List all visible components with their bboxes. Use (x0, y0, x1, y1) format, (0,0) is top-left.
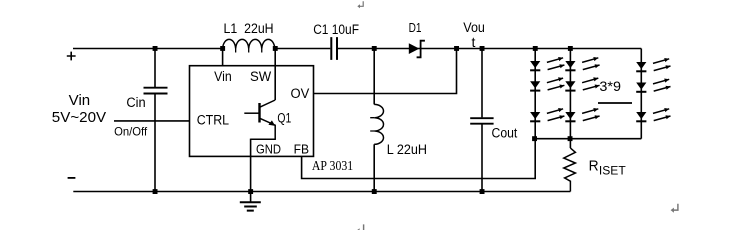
wire Cin top lead (154, 49, 156, 88)
LED D10 light arrows (653, 108, 671, 121)
ground symbol (240, 202, 261, 210)
wire top rail right segment (C1 right plate to LED col3 corner) (338, 48, 641, 50)
svg-text:R: R (589, 158, 599, 174)
op-amp IC U1 AP3031 body (190, 66, 314, 157)
wire emitter to GND pin (251, 138, 276, 140)
transistor Q1 emitter (260, 118, 276, 139)
LED D2 (530, 61, 540, 70)
wire L2 bottom to ground rail (373, 144, 375, 191)
LED D5 (565, 61, 575, 70)
node Cout top (480, 46, 485, 51)
LED D6 light arrows (582, 77, 600, 90)
diode D1 anode triangle (409, 43, 420, 54)
node LED col2 top (568, 46, 573, 51)
node L1 left / Vin pin (220, 46, 225, 51)
wire GND pin lead (250, 139, 252, 202)
LED D7 light arrows (582, 108, 600, 121)
capacitor Cout (470, 118, 493, 124)
node Cout bottom (480, 189, 485, 194)
LED D8 light arrows (653, 58, 671, 71)
node GND rail (248, 189, 253, 194)
svg-text:L 22uH: L 22uH (387, 142, 427, 157)
capacitor C1 (331, 37, 337, 60)
wire LED column 3 (640, 49, 642, 139)
resistor RISET (564, 148, 576, 191)
svg-text:GND: GND (256, 141, 281, 156)
svg-text:OV: OV (291, 86, 310, 101)
wire Cin bottom lead (154, 94, 156, 191)
LED D5 light arrows (582, 57, 600, 70)
svg-text:SW: SW (250, 69, 271, 84)
wire Cout bottom lead (481, 125, 483, 192)
wire LED column 1 (534, 49, 536, 139)
svg-text:t: t (472, 34, 476, 50)
svg-text:5V~20V: 5V~20V (52, 109, 106, 126)
LED D10 (636, 112, 646, 121)
svg-text:D1: D1 (409, 20, 422, 35)
wire top rail left segment (+ input to L1) (73, 48, 223, 50)
svg-text:FB: FB (294, 141, 309, 156)
inductor L2 coil (374, 104, 383, 144)
paragraph return mark bottom (356, 224, 363, 233)
node LED col1 top (533, 46, 538, 51)
node C1-D1-L2 (372, 46, 377, 51)
node LED bus col1/FB (532, 136, 537, 141)
svg-text:C1 10uF: C1 10uF (313, 22, 359, 37)
wire bottom rail (- input to RISET bottom corner) (73, 191, 570, 193)
wire C1/D1 node down to L2 (373, 49, 375, 105)
LED D2 light arrows (547, 57, 565, 70)
LED D9 (636, 83, 646, 92)
transistor Q1 collector (260, 100, 276, 107)
node Vout / OV (454, 46, 459, 51)
wire LED column 2 (569, 49, 571, 139)
transistor Q1 emitter arrow (268, 120, 275, 126)
wire FB pin to LED cathode bus (302, 139, 536, 179)
LED D7 (565, 112, 575, 121)
capacitor Cin (144, 88, 168, 94)
svg-text:Cout: Cout (492, 125, 518, 140)
inductor L1 junction curls (236, 49, 262, 53)
svg-text:Vin: Vin (214, 69, 232, 84)
inductor L2 junction curls (370, 118, 374, 131)
diode D1 schottky cathode bar (417, 41, 425, 58)
node L2 bottom (372, 189, 377, 194)
paragraph return mark right (671, 204, 678, 213)
inductor L1 coil (223, 39, 275, 48)
svg-text:L1 22uH: L1 22uH (224, 21, 274, 36)
wire top rail segment L1 to C1 (275, 48, 331, 50)
wire On/Off input to CTRL pin (114, 120, 190, 122)
transistor Q1 base bar (258, 103, 260, 123)
paragraph return mark top (357, 1, 363, 8)
wire Cout top lead (481, 49, 483, 118)
LED D4 light arrows (547, 108, 565, 121)
node Cin bottom (153, 189, 158, 194)
wire LED cathode bus (535, 138, 641, 140)
svg-text:3*9: 3*9 (599, 78, 621, 94)
wire Vin pin lead (222, 49, 224, 66)
svg-text:Q1: Q1 (277, 111, 291, 126)
wire SW pin to collector (274, 49, 276, 101)
LED D6 (565, 81, 575, 90)
svg-text:AP 3031: AP 3031 (312, 158, 353, 173)
svg-text:ISET: ISET (599, 163, 626, 177)
minus terminal of Vin (68, 177, 76, 179)
plus terminal of Vin (67, 52, 76, 61)
svg-text:On/Off: On/Off (114, 125, 148, 139)
svg-text:Vou: Vou (463, 19, 485, 35)
wire continuation dash under 3*9 (598, 102, 632, 104)
LED D8 (636, 62, 646, 71)
LED D4 (530, 112, 540, 121)
node L1 right / SW pin (273, 46, 278, 51)
wire OV pin to Vout node (314, 49, 457, 94)
node Cin top (153, 46, 158, 51)
transistor Q1 base lead (244, 112, 259, 114)
svg-text:Vin: Vin (69, 92, 91, 109)
node LED bus col2/RISET (568, 136, 573, 141)
svg-text:CTRL: CTRL (197, 113, 230, 128)
svg-text:Cin: Cin (126, 95, 145, 110)
LED D9 light arrows (653, 79, 671, 92)
LED D3 light arrows (547, 77, 565, 90)
wire RISET top lead (569, 139, 571, 148)
LED D3 (530, 81, 540, 90)
